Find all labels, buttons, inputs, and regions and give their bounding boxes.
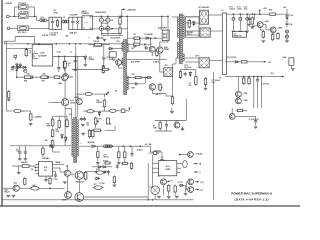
ground bl a [17, 172, 21, 174]
wire bl top row [12, 165, 36, 167]
transistor Q23 [174, 122, 180, 128]
resistor R53 mid [103, 94, 106, 111]
thermistor TH1 [9, 26, 49, 31]
wire sb drop [64, 106, 66, 146]
capacitor C7 aux [88, 36, 106, 41]
resistor R21b [66, 118, 69, 128]
label ZNR [70, 31, 77, 34]
svg-text:D3SB/05: D3SB/05 [82, 13, 89, 15]
node bus j3 [55, 43, 57, 45]
ground br a [157, 196, 161, 198]
wire cap mid tie [101, 22, 108, 24]
resistor R16 [39, 76, 48, 79]
oval D22 mid [108, 109, 118, 112]
svg-text:C3150: C3150 [70, 102, 75, 104]
capacitor C1 [51, 17, 54, 29]
svg-text:F1 250V: F1 250V [19, 3, 27, 5]
label TB [199, 164, 202, 166]
label Q6 [58, 82, 62, 85]
label bc [103, 161, 108, 163]
svg-text:+P.G.: +P.G. [270, 73, 275, 75]
wire mid links [95, 124, 97, 128]
ground sb [81, 133, 85, 135]
resistor R54 mid [92, 129, 102, 131]
label D20 [178, 182, 182, 184]
ground R35 [250, 27, 254, 29]
label bl mid [31, 169, 34, 171]
label brace [30, 50, 32, 54]
svg-text:B+: B+ [110, 124, 112, 126]
svg-text:D? ZX: D? ZX [178, 182, 182, 184]
wire control top bus [4, 43, 125, 45]
wire fb row [127, 37, 162, 39]
resistor R32 tall [171, 95, 173, 105]
svg-text:(C30)+C: (C30)+C [137, 150, 144, 152]
diode block D9 drive [164, 68, 173, 77]
wire vref drop [126, 16, 128, 43]
capacitor C20 [134, 82, 138, 85]
svg-text:270K: 270K [54, 12, 59, 14]
capacitor C34 bc [116, 164, 119, 168]
wire drv top a [127, 43, 152, 45]
T1 primary lower winding [178, 42, 179, 58]
wire q19 link [180, 154, 188, 156]
T2 winding right upper [127, 43, 128, 52]
label drv diode [131, 62, 140, 64]
wire drv vertical [144, 44, 146, 46]
resistor R45 [24, 177, 26, 186]
potentiometer VR1 [95, 116, 99, 125]
transistor Q10b [270, 27, 276, 33]
label D11 [199, 6, 209, 9]
wire ladder top [53, 115, 67, 117]
label lad val [56, 128, 61, 133]
transistor Q1 upper switch [157, 47, 163, 53]
wire bl links [2, 187, 13, 189]
label C43 [86, 122, 89, 127]
transistor Q8 drive [116, 60, 122, 66]
svg-text:7k: 7k [68, 65, 70, 67]
svg-text:(U1): (U1) [40, 53, 44, 55]
svg-text:7805M: 7805M [165, 169, 171, 171]
node fan c [74, 56, 76, 58]
T3 secondary winding [77, 120, 78, 157]
ground right cluster [285, 41, 289, 43]
svg-text:(U5): (U5) [44, 167, 48, 169]
resistor R38 [272, 33, 274, 41]
label F1 250V [19, 3, 27, 5]
label minus [199, 172, 201, 174]
transistor Q7 fb [149, 46, 155, 52]
capacitor C6 bulk [106, 16, 110, 35]
svg-text:(C?)(R?): (C?)(R?) [153, 62, 159, 64]
wire u2 bot [162, 185, 164, 196]
label Q1 [164, 47, 169, 51]
label Q5 [70, 77, 74, 79]
label D13 [195, 56, 200, 58]
ground bl b [6, 195, 10, 197]
label LP1 [149, 187, 152, 189]
wire q17-q18 [78, 179, 80, 192]
ground bc2 [103, 172, 107, 174]
resistor R35 [251, 14, 254, 25]
svg-text:NTC 5D-9: NTC 5D-9 [18, 32, 26, 34]
wire mid row [83, 110, 87, 112]
svg-text:SENSE 10u: SENSE 10u [234, 35, 242, 37]
resistor R48 [113, 175, 115, 184]
wire u2 left rail [152, 155, 154, 188]
wire sec links [185, 16, 199, 18]
resistor R11 [41, 76, 50, 78]
capacitor C33 mid pair [80, 117, 86, 126]
capacitor C25 right [285, 22, 288, 28]
label RY1 [19, 11, 30, 14]
label sb tub [154, 150, 162, 152]
zener ZD2 stack [16, 63, 18, 73]
label fan [249, 119, 259, 121]
oval A1 [95, 171, 106, 174]
ground fan [254, 127, 258, 129]
svg-text:R31: R31 [68, 63, 71, 65]
capacitor C27 [256, 77, 259, 83]
svg-text:+/W: +/W [110, 28, 113, 30]
label q20 e [158, 176, 160, 178]
label D9 [165, 65, 169, 67]
wire aux drop left [75, 46, 77, 118]
diode D18 cluster [97, 166, 107, 168]
capacitor C14 [18, 146, 22, 160]
svg-text:POWER MAC SUPERMAC-II: POWER MAC SUPERMAC-II [231, 192, 272, 196]
capacitor C11 [57, 57, 60, 73]
label R36 [269, 10, 272, 12]
capacitor C31 [165, 120, 168, 131]
wire q9 base stub [254, 14, 256, 20]
transistor Q22 [188, 187, 194, 193]
small box br [154, 152, 157, 155]
svg-text:14 12: 14 12 [57, 50, 61, 53]
IC U2 regulator [159, 161, 177, 176]
wire aux row mid [72, 69, 101, 71]
diode D16 right edge [289, 58, 294, 66]
resistor R24 [124, 146, 126, 162]
wire aux rail 2 [225, 76, 280, 78]
diode block D13 -12V [199, 58, 209, 68]
svg-text:(L1): (L1) [41, 17, 45, 19]
wire q2 base [144, 78, 146, 84]
capacitor C23 out [238, 13, 242, 32]
U5 right pin stubs [53, 165, 65, 173]
ground br c [175, 196, 179, 198]
svg-text:C?? 1000uF: C?? 1000uF [211, 80, 220, 82]
wire gnd stub [171, 108, 173, 111]
wire q6 up [64, 68, 66, 75]
wire rejoin vertical [34, 7, 36, 16]
svg-text:C2 2200P: C2 2200P [70, 15, 79, 17]
label smps [42, 158, 50, 160]
svg-text:C65: C65 [31, 169, 34, 171]
label R53 [96, 100, 102, 104]
border bottom edge [0, 205, 300, 207]
svg-text:Q33: Q33 [14, 182, 17, 184]
diode D25 in box [193, 21, 196, 27]
wire mid drop [172, 77, 174, 97]
wire drv top b [127, 50, 150, 52]
wire drv bot a [127, 77, 148, 79]
wire snubber [181, 69, 196, 71]
label L4 [222, 10, 224, 12]
bridge rectifier BR1 [82, 16, 93, 30]
label ladder [47, 123, 52, 128]
diode D8 [147, 76, 153, 79]
arrow -12V [262, 61, 266, 63]
wire U1 left vertical feed [5, 41, 7, 111]
svg-text:R10: R10 [27, 74, 30, 76]
label R15 [24, 81, 27, 83]
choke L1 winding [40, 19, 47, 22]
label R2 coil [94, 184, 97, 186]
svg-text:+/W: +/W [104, 20, 107, 22]
svg-text:R50: R50 [96, 100, 99, 102]
wire bc top [92, 166, 98, 168]
wire fan links [235, 115, 256, 117]
label R27 [134, 34, 136, 36]
label pin numbers 2 [70, 51, 72, 53]
svg-text:(Z1): (Z1) [89, 57, 92, 59]
resistor R26 snub [92, 129, 94, 139]
T1 secondary winding low [183, 54, 184, 61]
arrow -5 out [195, 189, 199, 191]
node bus j5 [79, 43, 81, 45]
T3 primary winding [72, 120, 73, 157]
svg-text:1000u: 1000u [237, 9, 242, 11]
wire live to choke [35, 15, 37, 17]
wire bc rows [86, 171, 96, 173]
drive left box [109, 52, 116, 57]
svg-text:RD9/05: RD9/05 [89, 59, 95, 61]
label R13 [94, 41, 101, 43]
X-capacitor block C1/R1 [49, 17, 61, 29]
wire bl q14 tie [66, 166, 68, 170]
svg-text:1000uF/250V: 1000uF/250V [95, 12, 107, 14]
wire standby feed [16, 73, 18, 78]
node fb3 [154, 37, 156, 39]
choke L2 winding [62, 20, 69, 23]
label R1 values [54, 10, 59, 14]
label A1 [96, 168, 100, 171]
T1 primary winding [178, 17, 179, 38]
node bus caps c [119, 16, 121, 18]
svg-text:+L??: +L?? [175, 121, 179, 123]
wire q1 emitter [159, 53, 161, 58]
svg-text:+12V: +12V [263, 8, 268, 10]
label pin numbers [57, 50, 61, 53]
svg-text:R19 1K: R19 1K [94, 41, 101, 43]
label bus mid [93, 45, 104, 48]
wire u2 pins right [177, 163, 182, 165]
zener ZD1 [84, 55, 87, 64]
wire fb drops [139, 38, 141, 43]
label q15 [62, 199, 67, 201]
node sb2 [122, 145, 124, 147]
resistor R39 [277, 32, 279, 40]
inductor L4 output choke [222, 13, 226, 75]
svg-text:275VAC: 275VAC [50, 34, 57, 37]
label far right [290, 14, 294, 17]
label R52 [102, 65, 105, 67]
label bus bottom [97, 38, 103, 40]
AC line terminal J1 [7, 15, 10, 18]
arrow -12 out [195, 181, 199, 183]
T1 secondary winding [183, 16, 184, 39]
label lower drv [156, 93, 161, 96]
resistor R30 [134, 76, 143, 78]
node bus caps b [107, 16, 109, 18]
capacitor C37 bc [107, 170, 110, 176]
wire right links [251, 24, 253, 27]
diode D14 right [286, 9, 289, 22]
label C22 [230, 7, 236, 11]
X-capacitor block 2 [69, 17, 82, 29]
wire q10 link [259, 28, 261, 31]
label C18 [131, 47, 134, 50]
wire relay row ext [50, 187, 65, 189]
diode D10 snubber [189, 71, 192, 77]
node bus j1 [27, 43, 29, 45]
node bus caps a [101, 16, 103, 18]
ground br b [167, 197, 171, 199]
label Q24 [75, 96, 80, 99]
transistor Q19 top right [188, 152, 194, 158]
svg-text:2n2: 2n2 [189, 85, 192, 87]
transistor Q2 lower switch [149, 84, 155, 90]
svg-text:SMPS(B+): SMPS(B+) [42, 158, 50, 160]
oval D24 [84, 93, 94, 96]
label D6 [87, 142, 95, 144]
border left edge [1, 0, 3, 206]
capacitor C17 [130, 146, 133, 156]
svg-text:+W04: +W04 [278, 26, 283, 29]
node aux a [243, 76, 245, 78]
svg-text:(D??): (D??) [195, 56, 200, 58]
resistor R51 v [159, 120, 161, 131]
svg-text:+Q56: +Q56 [265, 21, 269, 23]
svg-text:D18: D18 [132, 74, 135, 76]
T2 winding left [122, 42, 123, 51]
svg-text:R08: R08 [24, 81, 27, 83]
node drv1 [144, 43, 146, 45]
svg-text:+5V_SB: +5V_SB [145, 144, 152, 146]
capacitor C16 [96, 146, 100, 164]
label +12V [263, 8, 268, 10]
resistor R29 [132, 43, 141, 45]
svg-text:~ +: ~ + [84, 22, 88, 25]
label C36 [106, 57, 110, 59]
T2 winding right lower [127, 76, 128, 90]
node fan a [58, 56, 60, 58]
resistor R25 snub [88, 129, 90, 139]
label Q20 [168, 180, 173, 182]
small box mid [121, 109, 125, 112]
label Q17 [76, 181, 85, 183]
svg-text:(C?): (C?) [104, 155, 108, 157]
diode D3 line [6, 109, 24, 112]
label Q9 [265, 21, 269, 23]
wire +5V rail [227, 13, 290, 15]
label far right2 [290, 23, 293, 26]
capacitor C12 [74, 57, 77, 69]
ground q14 q15 mid [63, 182, 67, 184]
label C2 [70, 15, 79, 17]
resistor R46 [104, 162, 112, 164]
transistor Q18 big [75, 193, 84, 202]
label Q23 [175, 121, 179, 123]
node opto feed [161, 16, 163, 18]
wire bl gnd drop [18, 166, 20, 172]
transistor Q14 [64, 170, 70, 176]
svg-text:C4242: C4242 [164, 48, 169, 51]
wire mr row [155, 120, 186, 122]
resistor R18 left [8, 90, 10, 99]
diode D26 on rail [49, 145, 55, 148]
capacitor C30 oval [183, 161, 188, 168]
arrow TB out [194, 163, 198, 165]
diode D1 clamp [17, 66, 22, 68]
wire t1 primary bottom [176, 57, 179, 59]
svg-text:R26: R26 [43, 74, 46, 76]
svg-text:C77: C77 [189, 83, 192, 85]
capacitor C14b [24, 146, 28, 160]
resistor R13 [93, 43, 103, 46]
label C14 [16, 149, 19, 153]
wire cap bottom tie [101, 34, 123, 36]
label C1 values [50, 31, 59, 36]
svg-text:(U4) PC817: (U4) PC817 [158, 27, 167, 30]
label Q7 [157, 49, 161, 51]
wire up to fuse branch [14, 7, 16, 16]
label AC [7, 21, 9, 24]
label RT2 TH [11, 67, 14, 71]
label choke vals [219, 78, 222, 80]
svg-text:(-12): (-12) [200, 182, 204, 184]
node rail 12v [254, 13, 256, 15]
capacitor C9 [19, 63, 22, 67]
label R12 7k [68, 63, 71, 67]
resistor R58 in box [188, 19, 191, 29]
wire aux row [225, 61, 262, 63]
IC U1 KA7500 pwm controller [32, 45, 53, 66]
diode D27 drive in [108, 47, 123, 49]
label C23 [237, 7, 242, 11]
wire d20 link [184, 184, 187, 186]
resistor R36 [268, 13, 277, 16]
node fuse rejoin [34, 16, 36, 18]
resistor R57 sec [204, 77, 208, 90]
svg-text:+165VDC: +165VDC [127, 10, 137, 12]
resistor R59 beside Q17 [84, 171, 87, 181]
label PbA [283, 56, 287, 59]
capacitor C22 out [232, 13, 236, 32]
resistor ladder R20 [51, 118, 54, 149]
ground bc [113, 185, 117, 187]
resistor R14 [102, 65, 104, 74]
arrow +165VDC [122, 8, 126, 16]
svg-text:L1: L1 [222, 10, 224, 12]
transformer T2 core [124, 40, 127, 95]
svg-text:C? 10uF: C? 10uF [99, 183, 105, 185]
svg-text:(D?) UF/BYV: (D?) UF/BYV [131, 62, 140, 64]
arrow vcc mid [107, 92, 110, 95]
resistor R19 [21, 111, 32, 122]
